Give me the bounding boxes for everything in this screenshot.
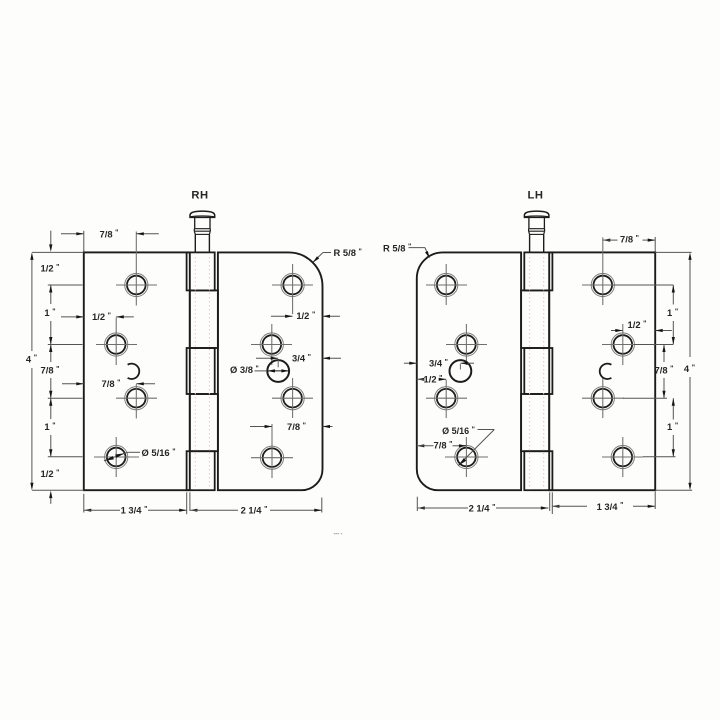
svg-text:LH: LH — [528, 189, 544, 201]
LH bottom extension lines — [417, 492, 655, 515]
svg-text:1/2 ": 1/2 " — [424, 374, 443, 385]
svg-text:Ø 5/16 ": Ø 5/16 " — [142, 447, 176, 458]
RH leader dia 3/8 at hole G — [230, 364, 289, 375]
svg-text:4 ": 4 " — [26, 353, 37, 364]
RH dim 1 inch (row C to row D) — [44, 398, 55, 457]
RH dim 7/8 vertical (row B to row C) — [41, 345, 60, 399]
RH barrel knuckle segment 5 — [187, 451, 215, 490]
svg-text:R 5/8 ": R 5/8 " — [334, 247, 362, 258]
LH row B extension line — [634, 344, 673, 346]
svg-text:2 1/4 ": 2 1/4 " — [469, 502, 496, 513]
LH hinge right leaf (square corner leaf) outline — [549, 252, 655, 490]
svg-text:Ø 3/8 ": Ø 3/8 " — [230, 364, 259, 375]
LH barrel knuckle segment 1 — [524, 252, 552, 290]
RH dim 1/2 vertical bottom (row D to bottom edge) — [41, 468, 60, 504]
LH dim 1 inch (row C to row D) — [667, 398, 678, 457]
RH top edge extension — [32, 251, 84, 253]
LH screw hole C — [582, 378, 624, 418]
RH row D extension line — [48, 456, 83, 458]
LH dim 7/8 top (hole A column to right edge) — [603, 234, 655, 252]
RH screw hole H — [272, 378, 313, 418]
RH dimple arc on left leaf — [128, 364, 140, 379]
RH dim 3/4 (hole G column to right edge) — [256, 353, 341, 364]
RH label — [191, 189, 208, 201]
RH dim 1/2 (left edge to hole B column) — [61, 311, 134, 322]
RH dim 1 inch (row A to row B) — [44, 285, 55, 345]
LH screw hole D bottom-right — [602, 437, 643, 477]
RH dim 4 inch overall height — [26, 252, 37, 490]
svg-text:7/8 ": 7/8 " — [100, 228, 119, 239]
LH dim 1/2 (left edge to hole H column) — [417, 374, 446, 385]
svg-text:1/2 ": 1/2 " — [628, 319, 647, 330]
svg-text:RH: RH — [191, 189, 208, 201]
RH dim 7/8 (hole I column to right edge) — [250, 421, 333, 432]
LH dim 7/8 (left edge to hole I column) — [417, 439, 467, 450]
LH screw hole B — [602, 324, 643, 365]
RH screw hole E top-right — [272, 264, 313, 314]
svg-text:2 1/4 ": 2 1/4 " — [241, 504, 268, 515]
LH barrel knuckle segment 5 — [524, 451, 552, 490]
RH bottom extension lines — [84, 492, 322, 514]
LH screw hole F — [446, 324, 487, 365]
svg-text:1/2 ": 1/2 " — [92, 311, 111, 322]
LH dim 4 inch overall height — [684, 252, 695, 490]
RH screw hole A top-left — [116, 232, 157, 306]
svg-text:1/2 ": 1/2 " — [41, 263, 60, 274]
RH hinge pin with button tip — [190, 211, 215, 252]
svg-text:3/4 ": 3/4 " — [292, 353, 311, 364]
RH barrel knuckle segment 4 — [190, 394, 218, 451]
LH top edge extension — [655, 251, 691, 253]
LH hinge left leaf (radius corner leaf) outline — [417, 252, 521, 490]
svg-text:7/8 ": 7/8 " — [620, 234, 639, 245]
LH dim 2 1/4 bottom (left leaf width) — [417, 502, 548, 513]
LH row A extension line — [613, 284, 673, 286]
LH screw hole E top-left — [426, 264, 467, 305]
svg-text:1 ": 1 " — [44, 421, 55, 432]
RH screw hole I bottom-right — [251, 424, 293, 478]
LH dim 3/4 (left edge to hole G column) — [404, 357, 474, 368]
svg-text:1/2 ": 1/2 " — [41, 468, 60, 479]
LH row C extension line — [623, 397, 667, 399]
LH barrel knuckle segment 4 — [521, 394, 549, 451]
LH dim 7/8 vertical (row B to row C) — [655, 345, 674, 399]
svg-text:1 3/4 ": 1 3/4 " — [121, 504, 148, 515]
LH leader R 5/8 radius callout — [383, 242, 430, 258]
LH screw hole I bottom-left (5/16 hole) — [445, 437, 488, 477]
LH screw hole H — [426, 380, 467, 418]
RH dim 7/8 (left edge to hole C column) — [62, 378, 155, 389]
RH hinge left leaf (square corner leaf) outline — [84, 252, 190, 490]
svg-text:--- -: --- - — [334, 531, 343, 537]
LH leader dia 5/16 at hole I — [442, 426, 494, 465]
LH barrel knuckle segment 2 — [521, 290, 549, 348]
svg-text:4 ": 4 " — [684, 363, 695, 374]
LH dim 1 3/4 bottom (right leaf width) — [552, 501, 655, 512]
RH leader dia 5/16 at hole D — [104, 447, 176, 461]
svg-text:Ø 5/16 ": Ø 5/16 " — [442, 426, 475, 436]
LH dim 1/2 (hole B column to right edge) — [611, 319, 672, 332]
LH label — [528, 189, 544, 201]
RH barrel knuckle segment 1 — [187, 252, 215, 290]
RH bottom edge extension — [32, 489, 84, 491]
RH dim 1/2 (hole E column to right edge) — [271, 310, 340, 321]
RH leader R 5/8 radius callout — [313, 247, 362, 263]
LH hinge pin with button tip — [524, 211, 549, 252]
RH screw hole D (5/16 hole) — [94, 437, 139, 477]
svg-text:1 ": 1 " — [667, 307, 678, 318]
svg-text:7/8 ": 7/8 " — [655, 364, 674, 375]
LH screw hole A top-right — [582, 237, 624, 305]
svg-text:7/8 ": 7/8 " — [41, 365, 60, 376]
svg-text:3/4 ": 3/4 " — [429, 357, 448, 368]
RH barrel knuckle segment 3 — [187, 348, 215, 394]
RH plain hole G (3/8 dimple hole) — [267, 360, 289, 382]
RH row A extension line — [48, 284, 83, 286]
LH plain hole G (3/8 dimple hole) — [450, 360, 472, 382]
RH dim 2 1/4 bottom (right leaf width) — [190, 504, 322, 515]
RH screw hole C — [116, 384, 157, 418]
svg-text:1 ": 1 " — [667, 421, 678, 432]
LH dimple arc on right leaf — [600, 364, 612, 379]
RH tiny note — [334, 531, 343, 537]
RH hidden pin lines inside barrel (dotted) — [195, 253, 209, 490]
LH row D extension line — [643, 456, 676, 458]
RH barrel knuckle segment 2 — [190, 290, 218, 348]
RH hinge right leaf (radius corner leaf) outline — [218, 252, 323, 490]
LH bottom edge extension — [655, 489, 692, 491]
LH dim 1 inch (row A to row B) — [667, 285, 678, 345]
LH barrel knuckle segment 3 — [524, 348, 552, 394]
RH dim 1 3/4 bottom (left leaf width) — [84, 504, 187, 515]
svg-text:1/2 ": 1/2 " — [296, 310, 315, 321]
LH hidden pin lines inside barrel (dotted) — [530, 253, 544, 490]
svg-text:1 ": 1 " — [44, 307, 55, 318]
svg-text:7/8 ": 7/8 " — [102, 378, 121, 389]
svg-text:1 3/4 ": 1 3/4 " — [597, 501, 624, 512]
RH row C extension line — [48, 397, 83, 399]
svg-text:R 5/8 ": R 5/8 " — [383, 242, 411, 253]
svg-text:7/8 ": 7/8 " — [287, 421, 306, 432]
RH dim 1/2 vertical top (top edge to row A) — [41, 231, 60, 274]
svg-text:7/8 ": 7/8 " — [434, 439, 453, 450]
RH row B extension line — [48, 344, 83, 346]
RH screw hole F — [251, 324, 292, 365]
RH screw hole B — [96, 318, 137, 366]
RH dim 7/8 top (left edge to hole A) — [61, 228, 159, 251]
